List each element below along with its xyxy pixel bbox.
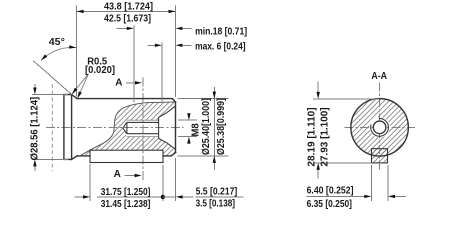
dim extension shaft end bottom bbox=[175, 158, 177, 201]
thread minor circle bbox=[373, 121, 386, 134]
end corner chamfer top bbox=[172, 99, 175, 102]
A-A vertical centerline bbox=[379, 83, 381, 172]
centerline shaft axis bbox=[46, 127, 184, 129]
M8 arrows bbox=[187, 113, 190, 120]
section line A-A bbox=[142, 78, 144, 182]
svg-text:31.75 [1.250]: 31.75 [1.250] bbox=[101, 187, 151, 198]
shaft top edge bbox=[77, 98, 172, 100]
svg-text:Ø25.38[0.999]: Ø25.38[0.999] bbox=[216, 98, 227, 155]
svg-text:5.5 [0.217]: 5.5 [0.217] bbox=[196, 187, 238, 198]
Ø25.4 extension top bbox=[178, 98, 229, 100]
A-A circle outline bbox=[351, 99, 409, 157]
dim line 28.19/27.93 bbox=[317, 82, 319, 93]
svg-text:43.8 [1.724]: 43.8 [1.724] bbox=[104, 1, 153, 12]
svg-text:45°: 45° bbox=[49, 37, 65, 48]
45 deg chamfer extension line bbox=[33, 61, 72, 95]
extension line thread depth bbox=[133, 26, 135, 103]
shaft bottom edge left bbox=[77, 155, 90, 157]
dim line 31.75/31.45 bbox=[74, 196, 83, 198]
dim Ø28.56 extension top bbox=[32, 94, 68, 96]
dim 43.8/42.5 left extension line bbox=[76, 6, 78, 97]
collar step face bbox=[71, 95, 73, 160]
dim right extension line shaft end bbox=[175, 6, 177, 98]
svg-text:31.45 [1.238]: 31.45 [1.238] bbox=[101, 199, 151, 210]
svg-text:[0.020]: [0.020] bbox=[85, 65, 115, 76]
counterbore flare top bbox=[159, 106, 176, 118]
counterbore step bbox=[158, 117, 160, 138]
end corner chamfer bottom bbox=[171, 152, 175, 156]
chamfer bottom bbox=[72, 156, 78, 160]
svg-text:3.5 [0.138]: 3.5 [0.138] bbox=[196, 199, 235, 210]
thread start edge bbox=[126, 122, 128, 133]
thread crest line bottom bbox=[127, 136, 159, 138]
threaded hole bore bottom bbox=[127, 133, 159, 135]
dim line Ø25.40/25.38 bbox=[213, 87, 215, 170]
svg-text:max. 6 [0.24]: max. 6 [0.24] bbox=[195, 41, 246, 52]
thread crest line top bbox=[127, 119, 159, 121]
extension line counterbore depth bbox=[161, 43, 163, 102]
svg-text:28.19 [1.110]: 28.19 [1.110] bbox=[307, 107, 318, 166]
shaft end face bbox=[175, 102, 177, 153]
svg-text:Ø25.40[1.000]: Ø25.40[1.000] bbox=[201, 98, 212, 155]
svg-text:M8: M8 bbox=[190, 123, 201, 137]
phantom line motor face bbox=[51, 84, 53, 171]
svg-text:Ø28.56 [1.124]: Ø28.56 [1.124] bbox=[30, 97, 41, 161]
svg-text:min.18 [0.71]: min.18 [0.71] bbox=[195, 26, 247, 37]
spline break line bbox=[81, 102, 175, 155]
A-A key tab bbox=[372, 149, 388, 163]
dim 28.19 extension bottom bbox=[313, 162, 372, 164]
45 deg arc bbox=[41, 47, 76, 60]
key bbox=[90, 150, 163, 162]
dim line Ø28.56 bbox=[34, 84, 36, 89]
threaded hole bore top bbox=[127, 121, 159, 123]
dim Ø28.56 extension bottom bbox=[32, 158, 68, 160]
counterbore flare bottom bbox=[159, 138, 176, 149]
dim line 43.8/42.5 bbox=[77, 10, 176, 12]
svg-text:A: A bbox=[114, 169, 121, 180]
Ø25.4 extension bottom bbox=[178, 155, 229, 157]
svg-text:A-A: A-A bbox=[371, 71, 387, 82]
R0.5 leader lines bbox=[72, 74, 89, 99]
A-A horizontal centerline bbox=[345, 126, 415, 128]
dim line max.6 bbox=[148, 44, 157, 46]
dim line min.18 bbox=[117, 27, 129, 29]
collar outline bbox=[64, 95, 72, 160]
section arrow A top bbox=[126, 82, 137, 84]
svg-text:6.35 [0.250]: 6.35 [0.250] bbox=[307, 199, 352, 210]
section arrow A bottom bbox=[125, 175, 137, 177]
svg-text:42.5 [1.673]: 42.5 [1.673] bbox=[104, 14, 151, 25]
dim 6.40 extension right bbox=[387, 165, 389, 201]
M8 extension lines bbox=[178, 119, 197, 121]
thread major arc bbox=[371, 118, 389, 136]
dim line 6.40/6.35 bbox=[307, 195, 366, 197]
dim 31.75 extension left bbox=[89, 164, 91, 201]
dim extension key end bbox=[162, 165, 164, 201]
A-A hatched circle bbox=[351, 99, 409, 157]
broken-out section hatch region bbox=[81, 102, 175, 156]
svg-text:27.93 [1.100]: 27.93 [1.100] bbox=[320, 107, 331, 166]
drill point cone bbox=[123, 122, 127, 133]
svg-text:6.40 [0.252]: 6.40 [0.252] bbox=[307, 186, 354, 197]
shaft bottom edge right bbox=[163, 155, 171, 157]
chamfer top bbox=[72, 95, 78, 99]
white core for thread bbox=[369, 117, 390, 138]
junction dot bbox=[161, 195, 165, 199]
dim 28.19 extension top bbox=[313, 98, 379, 100]
dim line 5.5/3.5 bbox=[163, 196, 176, 198]
svg-text:A: A bbox=[115, 78, 122, 89]
dim 6.40 extension left bbox=[370, 165, 372, 201]
